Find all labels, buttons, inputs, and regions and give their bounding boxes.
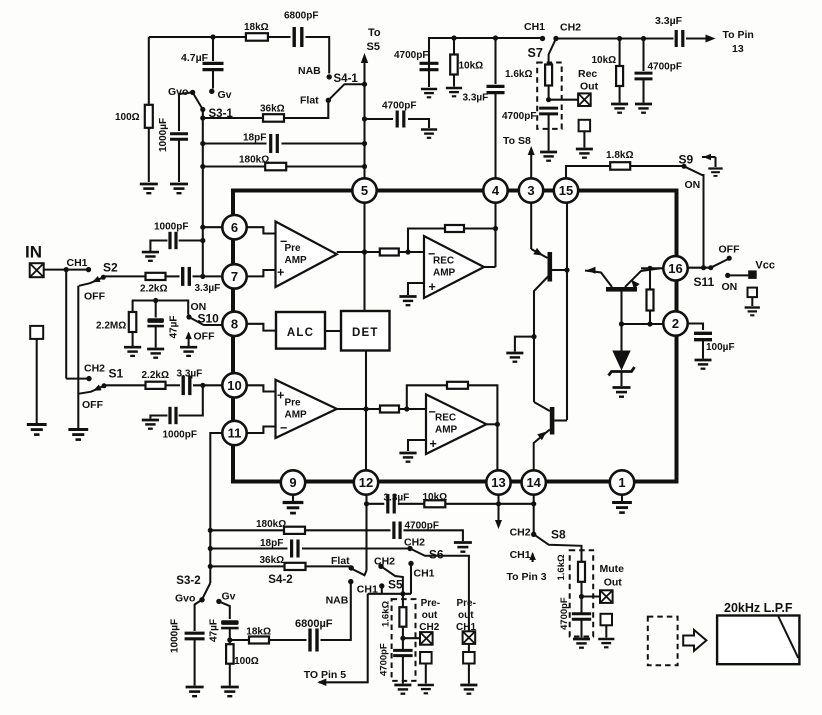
- svg-text:CH1: CH1: [414, 568, 435, 580]
- svg-text:1.8kΩ: 1.8kΩ: [606, 150, 633, 161]
- svg-text:2.2kΩ: 2.2kΩ: [142, 370, 169, 381]
- svg-text:NAB: NAB: [326, 595, 349, 607]
- svg-text:10: 10: [227, 378, 241, 393]
- svg-text:CH1: CH1: [357, 584, 378, 596]
- svg-text:CH2: CH2: [419, 622, 439, 633]
- svg-text:+: +: [277, 266, 284, 280]
- svg-text:Gvo: Gvo: [168, 86, 188, 98]
- svg-text:To S8: To S8: [503, 135, 531, 147]
- svg-text:−: −: [280, 235, 287, 249]
- svg-text:18kΩ: 18kΩ: [246, 627, 271, 638]
- svg-text:AMP: AMP: [433, 268, 456, 279]
- svg-text:4700pF: 4700pF: [648, 62, 682, 73]
- svg-text:10kΩ: 10kΩ: [459, 61, 484, 72]
- svg-text:REC: REC: [433, 256, 454, 267]
- svg-text:CH2: CH2: [374, 556, 395, 568]
- svg-text:1000pF: 1000pF: [154, 222, 188, 233]
- svg-text:18kΩ: 18kΩ: [244, 22, 269, 33]
- svg-text:+: +: [430, 437, 437, 451]
- svg-text:3.3µF: 3.3µF: [384, 493, 410, 504]
- svg-text:Gv: Gv: [218, 89, 232, 101]
- svg-text:2: 2: [672, 316, 679, 331]
- svg-text:1: 1: [618, 475, 625, 490]
- svg-text:ON: ON: [685, 179, 701, 191]
- svg-text:IN: IN: [25, 243, 42, 262]
- svg-text:Pre: Pre: [285, 397, 302, 408]
- svg-text:−: −: [280, 421, 287, 435]
- svg-text:3.3µF: 3.3µF: [177, 369, 203, 380]
- svg-text:S1: S1: [109, 367, 124, 381]
- svg-text:4700pF: 4700pF: [559, 597, 570, 630]
- svg-text:100µF: 100µF: [706, 342, 735, 353]
- svg-text:S11: S11: [694, 275, 715, 289]
- svg-text:Pre-: Pre-: [457, 598, 476, 609]
- svg-text:−: −: [428, 247, 435, 261]
- svg-text:NAB: NAB: [298, 65, 321, 77]
- svg-text:CH1: CH1: [524, 21, 545, 33]
- svg-text:36kΩ: 36kΩ: [260, 555, 285, 566]
- svg-text:2.2kΩ: 2.2kΩ: [140, 284, 167, 295]
- svg-text:16: 16: [668, 261, 682, 276]
- svg-text:S4-1: S4-1: [334, 73, 359, 85]
- svg-text:3.3µF: 3.3µF: [195, 283, 221, 294]
- svg-text:1.6kΩ: 1.6kΩ: [381, 601, 392, 627]
- svg-text:5: 5: [361, 183, 368, 198]
- svg-text:CH1: CH1: [456, 622, 476, 633]
- svg-text:180kΩ: 180kΩ: [239, 155, 269, 166]
- svg-text:2.2MΩ: 2.2MΩ: [96, 321, 126, 332]
- svg-text:36kΩ: 36kΩ: [260, 104, 285, 115]
- svg-text:20kHz L.P.F: 20kHz L.P.F: [724, 601, 793, 615]
- svg-text:6: 6: [231, 220, 238, 235]
- svg-text:TO Pin 5: TO Pin 5: [304, 669, 347, 681]
- svg-text:8: 8: [231, 316, 238, 331]
- svg-text:S3-2: S3-2: [176, 575, 200, 587]
- svg-text:+: +: [277, 389, 284, 403]
- svg-text:S5: S5: [388, 578, 403, 592]
- svg-text:Flat: Flat: [300, 95, 319, 107]
- svg-text:Mute: Mute: [600, 563, 625, 575]
- svg-text:Gvo: Gvo: [175, 593, 195, 605]
- svg-text:15: 15: [559, 183, 573, 198]
- svg-text:Gv: Gv: [222, 591, 236, 603]
- svg-text:S7: S7: [528, 46, 543, 60]
- svg-text:13: 13: [491, 475, 505, 490]
- svg-text:1.6kΩ: 1.6kΩ: [556, 554, 567, 580]
- svg-text:CH2: CH2: [84, 363, 105, 375]
- svg-text:10kΩ: 10kΩ: [592, 55, 617, 66]
- svg-text:+: +: [429, 280, 436, 294]
- svg-text:S9: S9: [679, 153, 694, 167]
- svg-text:S6: S6: [429, 548, 444, 562]
- svg-text:To Pin: To Pin: [723, 29, 754, 41]
- svg-text:out: out: [422, 610, 438, 621]
- svg-text:6800pF: 6800pF: [284, 11, 318, 22]
- svg-text:S2: S2: [103, 261, 118, 275]
- svg-text:4700pF: 4700pF: [405, 521, 439, 532]
- svg-text:S8: S8: [551, 528, 566, 542]
- svg-text:out: out: [458, 610, 474, 621]
- svg-text:Out: Out: [604, 577, 623, 589]
- svg-text:180kΩ: 180kΩ: [256, 519, 286, 530]
- svg-text:3.3µF: 3.3µF: [463, 93, 489, 104]
- svg-text:CH1: CH1: [67, 257, 88, 269]
- svg-text:100Ω: 100Ω: [115, 112, 140, 123]
- svg-text:4.7µF: 4.7µF: [181, 52, 209, 64]
- svg-text:−: −: [429, 405, 436, 419]
- svg-text:18pF: 18pF: [243, 133, 266, 144]
- svg-text:CH2: CH2: [404, 537, 425, 549]
- svg-text:11: 11: [228, 426, 242, 441]
- svg-text:S4-2: S4-2: [268, 574, 292, 586]
- svg-text:4: 4: [492, 183, 500, 198]
- svg-text:To Pin 3: To Pin 3: [507, 571, 547, 583]
- svg-text:OFF: OFF: [82, 399, 104, 411]
- svg-text:1000µF: 1000µF: [158, 118, 169, 152]
- svg-text:AMP: AMP: [285, 409, 308, 420]
- svg-text:CH1: CH1: [510, 549, 531, 561]
- svg-text:4700pF: 4700pF: [379, 643, 390, 676]
- svg-text:REC: REC: [435, 413, 456, 424]
- svg-text:4700pF: 4700pF: [382, 101, 416, 112]
- svg-text:1000pF: 1000pF: [163, 430, 197, 441]
- svg-text:13: 13: [732, 43, 744, 55]
- svg-text:S3-1: S3-1: [209, 108, 234, 120]
- svg-text:AMP: AMP: [285, 255, 308, 266]
- svg-text:S5: S5: [367, 41, 380, 53]
- svg-text:Rec: Rec: [578, 68, 597, 80]
- svg-text:1000µF: 1000µF: [170, 619, 181, 653]
- svg-text:AMP: AMP: [435, 425, 458, 436]
- svg-text:10kΩ: 10kΩ: [423, 492, 448, 503]
- svg-text:OFF: OFF: [194, 331, 216, 343]
- svg-text:ALC: ALC: [287, 327, 314, 339]
- svg-text:CH2: CH2: [510, 527, 531, 539]
- svg-text:12: 12: [359, 475, 373, 490]
- svg-text:100Ω: 100Ω: [234, 656, 259, 667]
- svg-text:3.3µF: 3.3µF: [655, 15, 683, 27]
- svg-text:Vcc: Vcc: [755, 260, 775, 272]
- svg-text:Out: Out: [580, 81, 599, 93]
- svg-text:4700pF: 4700pF: [502, 111, 536, 122]
- svg-text:9: 9: [289, 475, 296, 490]
- svg-text:ON: ON: [722, 281, 738, 293]
- svg-text:Pre-: Pre-: [421, 598, 440, 609]
- svg-text:47µF: 47µF: [169, 316, 180, 339]
- svg-text:OFF: OFF: [84, 291, 106, 303]
- svg-text:1.6kΩ: 1.6kΩ: [505, 69, 532, 80]
- svg-text:47µF: 47µF: [209, 619, 220, 642]
- svg-text:14: 14: [526, 475, 541, 490]
- svg-text:6800µF: 6800µF: [295, 618, 333, 630]
- svg-text:Flat: Flat: [331, 555, 350, 567]
- svg-text:S10: S10: [198, 312, 220, 326]
- svg-text:OFF: OFF: [719, 244, 741, 256]
- svg-text:To: To: [368, 27, 381, 39]
- svg-text:18pF: 18pF: [260, 538, 283, 549]
- svg-text:DET: DET: [352, 327, 379, 339]
- svg-text:4700pF: 4700pF: [394, 50, 428, 61]
- svg-text:7: 7: [231, 269, 238, 284]
- svg-text:CH2: CH2: [560, 22, 581, 34]
- svg-text:3: 3: [527, 183, 534, 198]
